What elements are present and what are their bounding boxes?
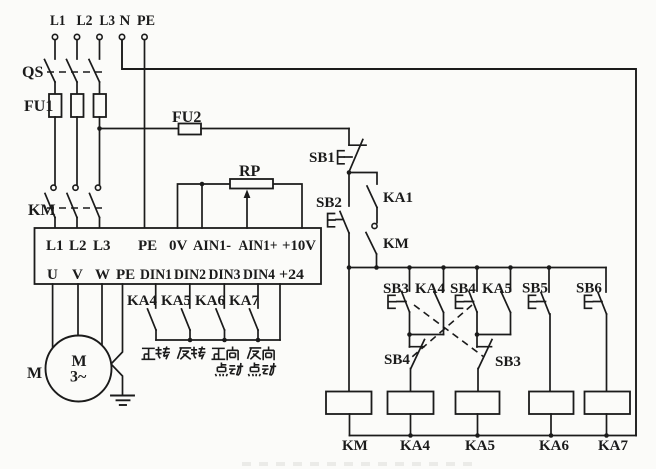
svg-text:M: M	[72, 353, 87, 370]
svg-text:M: M	[27, 365, 42, 382]
svg-text:DIN1: DIN1	[140, 267, 172, 283]
coil KA6	[529, 392, 574, 415]
contact KA4 aux (NO)	[415, 268, 446, 335]
wire KM to inverter	[55, 218, 100, 229]
terminal PE	[137, 13, 155, 40]
KM linkage dashed	[47, 207, 102, 209]
node bus SB2	[347, 265, 352, 270]
ground	[111, 396, 134, 406]
wire W to motor	[101, 284, 103, 350]
svg-text:PE: PE	[137, 13, 155, 29]
svg-text:FU1: FU1	[24, 98, 53, 115]
wire 0V to RP	[178, 184, 303, 228]
svg-text:KA6: KA6	[539, 438, 570, 454]
coil KA4	[388, 392, 434, 415]
fuse FU1 pole 3	[94, 94, 107, 117]
contact KA6 (DIN3)	[195, 284, 226, 340]
potentiometer RP	[230, 179, 273, 189]
label diandong (jog) 2	[248, 362, 276, 376]
node AIN1- junction	[200, 182, 205, 187]
contactor KM main pole 2	[67, 185, 78, 217]
wire KA6 coil to bottom bus	[550, 414, 552, 436]
svg-text:SB4: SB4	[384, 352, 410, 368]
control bus top	[349, 267, 606, 269]
svg-text:L1: L1	[46, 238, 64, 254]
wire KA7 coil to bottom bus	[606, 414, 608, 436]
svg-text:PE: PE	[116, 267, 135, 283]
wire join SB4/KA5	[477, 334, 511, 336]
svg-text:V: V	[72, 267, 83, 283]
wire PE down	[144, 40, 146, 228]
pushbutton SB4 (NO)	[450, 268, 477, 335]
fuse FU2	[179, 124, 202, 135]
pushbutton SB2 (NO)	[316, 173, 349, 268]
pushbutton SB3 interlock (NC)	[477, 335, 521, 392]
svg-text:DIN4: DIN4	[243, 267, 275, 283]
node bus KM aux	[374, 265, 379, 270]
svg-text:SB2: SB2	[316, 195, 342, 211]
wire U to motor	[52, 284, 54, 350]
wire join SB3/KA4	[410, 334, 444, 336]
pushbutton SB5 (NO)	[522, 268, 550, 392]
U1 bottom row terminal labels	[47, 267, 305, 283]
svg-text:KA1: KA1	[383, 190, 413, 206]
pushbutton SB4 interlock (NC)	[384, 335, 425, 392]
switch QS pole 1	[45, 60, 56, 83]
svg-text:KA4: KA4	[415, 281, 446, 297]
svg-text:PE: PE	[138, 238, 157, 254]
collector wire DIN contacts	[156, 339, 280, 341]
node bus SB3	[407, 265, 412, 270]
node SB3-KA4 join	[407, 332, 412, 337]
svg-text:KA5: KA5	[161, 293, 191, 309]
inverter block U1	[35, 228, 322, 284]
terminal L1	[50, 13, 66, 40]
svg-text:RP: RP	[239, 163, 261, 180]
wire N bus	[122, 40, 636, 436]
node bus KA4	[441, 265, 446, 270]
label diandong (jog) 1	[215, 362, 243, 376]
wire AIN1- up	[201, 184, 203, 228]
wire L1 to QS	[54, 40, 56, 59]
node SB4-KA5 join	[475, 332, 480, 337]
node bus SB5	[547, 265, 552, 270]
pushbutton SB1 (NC)	[309, 129, 366, 174]
node bus KA5	[508, 265, 513, 270]
svg-text:KA4: KA4	[400, 438, 431, 454]
svg-text:KM: KM	[383, 236, 409, 252]
svg-text:KA6: KA6	[195, 293, 226, 309]
terminal N	[119, 13, 130, 40]
svg-text:L1: L1	[50, 13, 66, 29]
svg-text:KM: KM	[342, 438, 368, 454]
motor M	[27, 336, 112, 402]
svg-text:QS: QS	[22, 64, 43, 81]
terminal L2	[74, 13, 92, 40]
wire FU2 to SB1	[201, 128, 349, 130]
svg-text:KA7: KA7	[229, 293, 260, 309]
svg-text:SB1: SB1	[309, 150, 335, 166]
svg-text:W: W	[95, 267, 110, 283]
contact KA5 (DIN2)	[161, 284, 191, 340]
svg-text:SB3: SB3	[383, 281, 409, 297]
wire KM coil to bottom bus	[349, 414, 351, 436]
wire L2 to QS	[76, 40, 78, 59]
svg-text:FU2: FU2	[172, 109, 201, 126]
wire SB2 node to KM coil	[348, 268, 350, 392]
wire KA5 coil to bottom bus	[477, 414, 479, 436]
QS linkage dashed	[47, 71, 102, 73]
svg-text:U: U	[47, 267, 58, 283]
wire PE to motor frame and ground	[111, 284, 123, 394]
wire V to motor	[77, 284, 79, 340]
faint cropped caption	[242, 462, 472, 466]
svg-text:DIN3: DIN3	[209, 267, 241, 283]
dashed interlock SB3 link	[414, 305, 484, 357]
svg-text:L2: L2	[77, 13, 93, 29]
node DIN2 collector	[188, 338, 193, 343]
svg-text:KA7: KA7	[598, 438, 629, 454]
svg-text:L2: L2	[69, 238, 87, 254]
U1 top row terminal labels	[46, 238, 316, 254]
wire KA4 coil to bottom bus	[410, 414, 412, 436]
wire QS to FU1	[55, 82, 100, 94]
svg-text:KA5: KA5	[482, 281, 512, 297]
svg-text:L3: L3	[93, 238, 111, 254]
fuse FU1 pole 1	[49, 94, 62, 117]
svg-text:3~: 3~	[70, 369, 87, 386]
svg-text:SB5: SB5	[522, 281, 548, 297]
fuse FU1 pole 2	[71, 94, 84, 117]
node L3-FU2 junction	[97, 126, 102, 131]
node DIN3 collector	[222, 338, 227, 343]
switch QS pole 3	[89, 60, 100, 83]
svg-text:0V: 0V	[169, 238, 188, 254]
coil KA7	[585, 392, 631, 415]
svg-text:KA5: KA5	[465, 438, 495, 454]
node bus SB4	[475, 265, 480, 270]
wire branch to KA1	[349, 173, 377, 185]
switch QS pole 2	[67, 60, 78, 83]
contact KA7 (DIN4)	[229, 284, 260, 340]
terminal L3	[97, 13, 115, 40]
svg-text:KA4: KA4	[127, 293, 158, 309]
svg-text:KM: KM	[28, 202, 56, 219]
RP wiper arrow	[244, 190, 251, 229]
bottom bus	[350, 435, 637, 437]
contact KM aux (NO)	[366, 223, 409, 267]
wire L3 to FU2	[100, 128, 179, 130]
label fanzhuan (reverse)	[177, 346, 205, 359]
wire +24 down	[279, 284, 281, 340]
contactor KM main pole 3	[90, 185, 101, 217]
contactor KM main pole 1	[45, 185, 56, 217]
node bus KA6 coil	[549, 433, 554, 438]
pushbutton SB6 (NO)	[576, 268, 607, 392]
svg-text:+10V: +10V	[282, 238, 316, 254]
label fanxiang (rev)	[247, 346, 274, 360]
label zhengzhuan (forward)	[141, 346, 170, 359]
coil KM	[326, 392, 372, 415]
svg-text:SB6: SB6	[576, 281, 602, 297]
contact KA1 (NO)	[367, 186, 413, 223]
label zhengxiang (fwd)	[211, 346, 238, 360]
svg-text:L3: L3	[100, 13, 116, 29]
node bus KA4 coil	[408, 433, 413, 438]
node bus KA5 coil	[475, 433, 480, 438]
node bus KA7 coil	[604, 433, 609, 438]
pushbutton SB3 (NO)	[383, 268, 410, 335]
coil KA5	[456, 392, 500, 415]
contact KA4 (DIN1)	[127, 284, 158, 340]
wire L3 to QS	[99, 40, 101, 59]
svg-text:SB3: SB3	[495, 354, 521, 370]
wire FU1 to KM main	[55, 117, 100, 185]
dashed interlock SB4 link	[412, 305, 472, 357]
svg-text:AIN1-: AIN1-	[193, 238, 231, 254]
svg-text:AIN1+: AIN1+	[239, 238, 278, 254]
svg-text:N: N	[120, 13, 131, 29]
svg-text:+24: +24	[279, 267, 305, 283]
node SB1 bottom	[347, 170, 352, 175]
contact KA5 aux (NO)	[482, 268, 512, 335]
node DIN4 collector	[256, 338, 261, 343]
svg-text:DIN2: DIN2	[174, 267, 206, 283]
